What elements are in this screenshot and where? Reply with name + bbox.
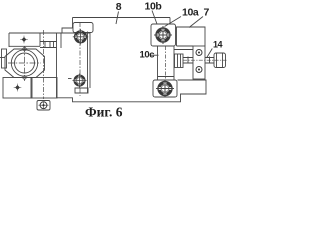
screw circle foot [39, 102, 49, 110]
hex nut outline [5, 49, 45, 78]
column step line [158, 76, 175, 78]
base outline polyline [57, 80, 206, 102]
wire: rail left vertical [72, 18, 74, 29]
leader for 8 [116, 12, 119, 25]
centerline vertical of bore [24, 46, 26, 81]
bore inner circle [15, 53, 35, 73]
bore outer circle [11, 50, 37, 76]
small diamond top flat [22, 47, 27, 51]
rod centerline [183, 59, 227, 61]
tick on tab [0, 57, 5, 59]
centerline horizontal of bore [8, 62, 41, 64]
svg-text:8: 8 [116, 1, 122, 13]
wire: top rail line [73, 17, 171, 19]
rod right segment [205, 57, 214, 64]
svg-text:10c: 10c [140, 50, 155, 61]
leader for 7 [189, 17, 203, 28]
wire: rail right corner down [169, 18, 171, 25]
node: collar band [40, 42, 57, 48]
target on column lower [72, 73, 86, 87]
svg-text:Фиг. 6: Фиг. 6 [85, 105, 123, 120]
node: body right edges [87, 32, 89, 94]
leader for 10a [165, 17, 182, 27]
capacitor-like cap box on column [73, 23, 93, 33]
target tower top [154, 26, 172, 44]
node A: left assembly top plate [9, 32, 90, 34]
right tower top box [151, 24, 176, 46]
screw head [214, 53, 226, 68]
leader for 14 [207, 49, 213, 59]
svg-text:14: 14 [213, 39, 223, 49]
node: body left edges [56, 33, 58, 98]
rod left segment [183, 57, 193, 64]
column bottom box [75, 88, 88, 93]
leader for 10c [150, 54, 159, 56]
svg-text:7: 7 [204, 7, 210, 19]
screw circle plate bottom [196, 67, 202, 73]
left tab [2, 49, 7, 68]
foot block with screw [37, 101, 50, 111]
nut block left of rod [175, 54, 184, 68]
leader for 10b [152, 11, 157, 25]
tower center dashes [165, 46, 167, 80]
lower-left plate [3, 78, 32, 99]
small diamond bottom flat [22, 75, 27, 79]
target tower bottom [156, 80, 174, 98]
right tower column [158, 46, 175, 80]
bracket plate [193, 46, 205, 79]
diamond mark upper plate [20, 36, 28, 44]
column center dashed line [79, 22, 81, 96]
right tower bottom box [153, 80, 177, 97]
target on column upper [73, 29, 88, 44]
box 7 [177, 27, 206, 46]
tick left of lower target [68, 78, 72, 80]
svg-text:10a: 10a [182, 7, 199, 19]
pedestal centerline [43, 30, 45, 99]
pedestal box [31, 78, 57, 99]
screw circle plate top [196, 50, 202, 56]
wire: step left of cap [62, 28, 73, 33]
diamond mark lower plate [14, 84, 22, 92]
svg-text:10b: 10b [145, 1, 162, 13]
